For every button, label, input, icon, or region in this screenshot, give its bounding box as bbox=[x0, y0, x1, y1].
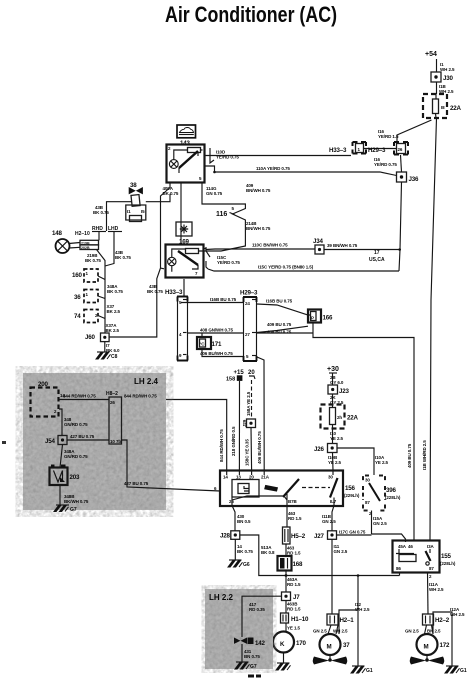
connector J36 bbox=[397, 172, 419, 183]
svg-text:202B: 202B bbox=[81, 246, 90, 250]
connector H2-2 bbox=[423, 614, 450, 625]
wire 156 pin26 down to J28 bbox=[232, 506, 235, 532]
wire H5-2 to 168 bbox=[285, 544, 287, 556]
node +15 bbox=[234, 370, 245, 376]
svg-text:13: 13 bbox=[236, 475, 241, 480]
svg-text:YE 2.5: YE 2.5 bbox=[375, 460, 389, 465]
svg-text:10 7b: 10 7b bbox=[110, 439, 121, 444]
svg-text:87: 87 bbox=[429, 566, 434, 571]
svg-text:(228Lh): (228Lh) bbox=[385, 495, 401, 500]
actuator 203 bbox=[50, 465, 80, 486]
connector J30 bbox=[431, 72, 453, 82]
svg-text:BK 2.5: BK 2.5 bbox=[106, 328, 120, 333]
svg-text:158C YE 0.35: 158C YE 0.35 bbox=[245, 439, 250, 466]
svg-text:(228Lh): (228Lh) bbox=[440, 561, 456, 566]
svg-text:I16B BU 0.75: I16B BU 0.75 bbox=[266, 299, 293, 304]
svg-text:GN 2.5: GN 2.5 bbox=[322, 519, 336, 524]
svg-text:YE/RD 0.75: YE/RD 0.75 bbox=[216, 155, 239, 160]
svg-text:GN/RD 0.75: GN/RD 0.75 bbox=[64, 454, 88, 459]
svg-text:BK 0.75: BK 0.75 bbox=[107, 289, 123, 294]
node 116 bbox=[216, 206, 235, 218]
wire J30 to fuse 22A bbox=[436, 82, 438, 94]
ground G7 (LH2.4) bbox=[54, 505, 77, 513]
svg-text:BN/WH 0.75: BN/WH 0.75 bbox=[246, 188, 271, 193]
svg-text:406 BU/WH 0.75: 406 BU/WH 0.75 bbox=[200, 351, 233, 356]
svg-text:158A YE 2.5: 158A YE 2.5 bbox=[246, 391, 251, 416]
svg-text:BK 0.8: BK 0.8 bbox=[261, 550, 275, 555]
wire relay 155 coil to ground net bbox=[399, 573, 401, 576]
ground C8 bbox=[96, 352, 118, 360]
svg-text:J23: J23 bbox=[339, 388, 349, 395]
svg-text:160: 160 bbox=[72, 272, 82, 279]
svg-text:427 BU 0.75: 427 BU 0.75 bbox=[70, 434, 95, 439]
svg-text:YE/RD 0.75: YE/RD 0.75 bbox=[374, 162, 397, 167]
svg-text:166: 166 bbox=[323, 315, 333, 322]
svg-text:°C: °C bbox=[200, 342, 206, 347]
junction dots bbox=[213, 171, 216, 174]
wire H29-3 pin24 to 166 bbox=[257, 304, 310, 315]
wire motor 170 to ground bbox=[283, 653, 285, 664]
connector H5-2 bbox=[283, 527, 306, 544]
wire H33-3 pin4 to H29-3 pin27 (408 GN/WH) bbox=[188, 332, 243, 334]
svg-text:9: 9 bbox=[179, 353, 182, 358]
svg-text:168: 168 bbox=[293, 561, 303, 568]
svg-text:WH 2.5: WH 2.5 bbox=[333, 629, 348, 634]
svg-text:22A: 22A bbox=[347, 415, 358, 422]
svg-text:BN 0.75: BN 0.75 bbox=[244, 654, 260, 659]
connector H2-1 bbox=[327, 614, 354, 625]
relay 169 bbox=[166, 245, 204, 278]
svg-text:GN 2.5: GN 2.5 bbox=[373, 521, 387, 526]
svg-text:BK 0.75: BK 0.75 bbox=[115, 255, 131, 260]
svg-text:YE/RD 1.5: YE/RD 1.5 bbox=[378, 134, 399, 139]
svg-text:J54: J54 bbox=[45, 438, 55, 445]
valve 38 bbox=[126, 182, 146, 222]
svg-text:I1B WH/RD 2.5: I1B WH/RD 2.5 bbox=[422, 440, 427, 470]
svg-text:J34: J34 bbox=[313, 238, 323, 245]
svg-text:H2–2: H2–2 bbox=[435, 617, 450, 624]
wire lamp to H2-10 bbox=[69, 243, 80, 249]
svg-text:87: 87 bbox=[365, 500, 370, 505]
wire H33-3 to H29-3 small bbox=[364, 148, 397, 150]
svg-text:BK 0.75: BK 0.75 bbox=[163, 191, 179, 196]
svg-text:5: 5 bbox=[246, 354, 249, 359]
svg-text:39 BN/WH 0.75: 39 BN/WH 0.75 bbox=[327, 243, 358, 248]
ground G7 (LH2.2) bbox=[235, 662, 257, 670]
svg-text:844 RD/WH 0.75: 844 RD/WH 0.75 bbox=[124, 394, 157, 399]
svg-text:37: 37 bbox=[343, 642, 350, 649]
relay 155 bbox=[393, 541, 456, 573]
svg-text:203: 203 bbox=[70, 474, 80, 481]
wire H33-3 to H29-3 (I16B BU) bbox=[181, 302, 243, 304]
svg-text:148: 148 bbox=[52, 230, 62, 237]
svg-text:YE/RD 0.75: YE/RD 0.75 bbox=[217, 260, 240, 265]
fuse 22A (top) bbox=[423, 94, 461, 118]
wire ground net down to G1 (I12 WH) bbox=[357, 576, 359, 667]
svg-text:BK 2.5: BK 2.5 bbox=[427, 629, 441, 634]
svg-text:1: 1 bbox=[358, 147, 361, 152]
svg-text:427 BU 0.75: 427 BU 0.75 bbox=[124, 481, 149, 486]
svg-text:I1: I1 bbox=[127, 209, 131, 214]
svg-text:4: 4 bbox=[179, 332, 182, 337]
svg-text:YE 2.5: YE 2.5 bbox=[328, 460, 342, 465]
svg-text:GN 2.5: GN 2.5 bbox=[313, 629, 327, 634]
svg-text:171: 171 bbox=[212, 341, 222, 348]
svg-text:Air Conditioner (AC): Air Conditioner (AC) bbox=[165, 2, 337, 27]
wire +54 to J30 bbox=[436, 59, 438, 72]
wire valve 38 to relay 143 (409A) bbox=[146, 194, 170, 202]
icon car (above relay 143) bbox=[177, 125, 196, 138]
resistor 168 bbox=[278, 556, 303, 571]
connector H33-3 (tall) bbox=[165, 289, 188, 361]
component 36 bbox=[74, 290, 105, 303]
svg-text:46: 46 bbox=[408, 544, 413, 549]
terminal 158 bbox=[226, 375, 242, 382]
wire J29 down to control head pin 20 bbox=[250, 428, 253, 471]
svg-text:BK 2.5: BK 2.5 bbox=[107, 309, 121, 314]
svg-text:218 GN/RD 0.5: 218 GN/RD 0.5 bbox=[231, 426, 236, 456]
svg-text:2: 2 bbox=[429, 574, 432, 579]
svg-text:GN 0.75: GN 0.75 bbox=[206, 191, 223, 196]
svg-text:844 RD/WH 0.75: 844 RD/WH 0.75 bbox=[219, 429, 224, 462]
svg-text:LH 2.2: LH 2.2 bbox=[209, 593, 234, 602]
fan blades 37 bbox=[313, 655, 348, 665]
svg-text:M: M bbox=[327, 644, 332, 651]
ground (motor 170) bbox=[276, 663, 291, 670]
wire H2-2 to motor 172 bbox=[425, 625, 427, 634]
connector J54 bbox=[45, 436, 67, 446]
svg-text:155: 155 bbox=[441, 553, 451, 560]
connector H1-10 bbox=[281, 613, 309, 623]
svg-text:26: 26 bbox=[110, 400, 115, 405]
connector H2-10 bbox=[75, 231, 99, 250]
svg-text:H29–3: H29–3 bbox=[368, 147, 386, 154]
svg-text:BN 0.5: BN 0.5 bbox=[237, 519, 251, 524]
thermostat 171 bbox=[197, 333, 222, 349]
connector H29-3 (small) bbox=[368, 142, 408, 155]
component 74 bbox=[74, 310, 105, 323]
wire J26 down to 156 pin 30 bbox=[332, 453, 335, 471]
svg-text:30: 30 bbox=[328, 475, 333, 480]
component 160 bbox=[72, 269, 105, 282]
svg-text:US,CA: US,CA bbox=[369, 257, 385, 263]
svg-text:I15C YE/RD 0.75 (BN80 1.5): I15C YE/RD 0.75 (BN80 1.5) bbox=[258, 265, 314, 270]
svg-text:36: 36 bbox=[74, 294, 81, 301]
svg-text:H33–3: H33–3 bbox=[165, 289, 183, 296]
svg-text:BK 0.75: BK 0.75 bbox=[147, 289, 163, 294]
svg-text:6: 6 bbox=[214, 486, 217, 491]
lamp 148 bbox=[52, 230, 70, 253]
svg-text:H29–3: H29–3 bbox=[240, 290, 258, 297]
connector J27 bbox=[314, 531, 337, 540]
svg-text:WH 2.5: WH 2.5 bbox=[429, 587, 444, 592]
svg-text:I17C GN 0.75: I17C GN 0.75 bbox=[339, 530, 366, 535]
wire 156 pin B7B down to H5-2 bbox=[286, 506, 288, 528]
svg-text:J60: J60 bbox=[85, 334, 95, 341]
LH 2.4 module (grey) bbox=[23, 373, 166, 510]
svg-text:GY 6.0: GY 6.0 bbox=[330, 380, 344, 385]
svg-text:844 RD/WH 0.75: 844 RD/WH 0.75 bbox=[63, 394, 96, 399]
LH 2.2 module (grey) bbox=[205, 589, 273, 669]
svg-text:110C BN/WH 0.75: 110C BN/WH 0.75 bbox=[252, 243, 288, 248]
svg-text:396: 396 bbox=[386, 487, 396, 494]
ground G1 (motor 172) bbox=[445, 666, 467, 674]
svg-text:RD 1.5: RD 1.5 bbox=[287, 582, 301, 587]
svg-text:24: 24 bbox=[245, 301, 250, 306]
node LHD bbox=[108, 226, 122, 232]
svg-text:BK 0.75: BK 0.75 bbox=[93, 210, 109, 215]
svg-text:GN 2.5: GN 2.5 bbox=[334, 549, 348, 554]
svg-text:M: M bbox=[424, 644, 429, 651]
fan motor 37 bbox=[320, 634, 351, 655]
wire fuse to H29-3 small (diagonal) bbox=[397, 120, 432, 142]
svg-text:+30: +30 bbox=[327, 366, 339, 373]
svg-text:74: 74 bbox=[74, 313, 81, 320]
node RHD bbox=[92, 226, 106, 232]
wire 169/valve line down to H29-3 pin 24 (I16B BU) bbox=[183, 279, 185, 297]
svg-text:H2–10: H2–10 bbox=[75, 231, 90, 237]
wire H2-1 to motor 37 bbox=[328, 625, 331, 634]
svg-text:J27: J27 bbox=[314, 533, 324, 540]
wire J23 to fuse 22A bbox=[332, 394, 334, 404]
svg-text:H1–10: H1–10 bbox=[291, 616, 309, 623]
svg-text:142: 142 bbox=[255, 640, 265, 647]
wire 156 pin IL7 down to J27 bbox=[332, 506, 334, 532]
wire J60 to ground bbox=[104, 342, 106, 352]
wire J27 down to H2-1 bbox=[331, 539, 333, 614]
svg-text:WH 2.5: WH 2.5 bbox=[450, 612, 465, 617]
node +30 bbox=[327, 366, 339, 373]
svg-text:116: 116 bbox=[216, 211, 227, 218]
icon snowflake (above relay 169) bbox=[176, 222, 192, 236]
connector J60 bbox=[85, 333, 109, 342]
wire 203 down to ground G7 bbox=[59, 485, 61, 505]
svg-text:G6: G6 bbox=[243, 562, 250, 568]
svg-text:5: 5 bbox=[232, 206, 235, 211]
wire 158 down to control head pin 13 bbox=[238, 381, 240, 470]
svg-text:BK 0.75: BK 0.75 bbox=[237, 549, 253, 554]
wire motor 37 second terminal to ground line bbox=[336, 610, 358, 634]
svg-text:(229Lh): (229Lh) bbox=[344, 493, 360, 498]
svg-text:LH 2.4: LH 2.4 bbox=[134, 377, 159, 386]
wire 171 to H29-3 pin5 (406 BU/WH) bbox=[202, 349, 243, 357]
blower motor 170 bbox=[273, 632, 306, 653]
svg-text:YE 1.5: YE 1.5 bbox=[287, 626, 301, 631]
svg-text:30: 30 bbox=[365, 478, 370, 483]
wire J36 down to junctions bbox=[399, 182, 402, 271]
svg-text:27: 27 bbox=[245, 332, 250, 337]
svg-text:409 BU 0.75: 409 BU 0.75 bbox=[407, 443, 412, 468]
wire LHD down bbox=[105, 232, 114, 267]
page footer marks bbox=[248, 675, 261, 678]
svg-text:IL7: IL7 bbox=[330, 499, 337, 504]
svg-text:GN 2.5: GN 2.5 bbox=[405, 629, 419, 634]
svg-text:17: 17 bbox=[374, 250, 380, 256]
svg-text:J26: J26 bbox=[314, 446, 324, 453]
wire J7 to H1-10 bbox=[285, 601, 287, 614]
wire J27 right to 396/155 (I17C GN) bbox=[337, 534, 406, 542]
wire 200 pin14 to H8-2 (844) bbox=[59, 399, 109, 401]
svg-text:H8–2: H8–2 bbox=[106, 391, 118, 397]
wire H2-10 down to box 160 bbox=[97, 250, 106, 334]
wire H8-2 out (427 BU) to control head bbox=[122, 440, 221, 491]
svg-text:22A: 22A bbox=[450, 105, 461, 112]
svg-text:G7: G7 bbox=[250, 664, 257, 670]
svg-text:+15: +15 bbox=[234, 370, 245, 376]
svg-text:+54: +54 bbox=[425, 51, 437, 58]
svg-text:RD 1.5: RD 1.5 bbox=[288, 516, 302, 521]
connector H29-3 (tall) bbox=[240, 290, 258, 362]
wire RHD down to H2-10 bbox=[98, 232, 100, 241]
fan blades 172 bbox=[410, 655, 445, 665]
svg-text:170: 170 bbox=[296, 640, 306, 647]
svg-text:J28: J28 bbox=[220, 533, 230, 540]
wire J54 to H8-2 (427 BU) bbox=[67, 439, 109, 441]
wire relay 155 switch down to H2-2 bbox=[427, 573, 430, 615]
svg-text:172: 172 bbox=[440, 642, 450, 649]
svg-text:I5: I5 bbox=[141, 209, 145, 214]
svg-text:J30: J30 bbox=[443, 75, 453, 82]
svg-text:86: 86 bbox=[396, 566, 401, 571]
ground G1 (motor 37) bbox=[351, 666, 373, 674]
svg-text:G1: G1 bbox=[366, 668, 373, 674]
svg-text:5: 5 bbox=[199, 176, 202, 181]
wire 143 bottom-left down (409A BK) bbox=[109, 183, 170, 338]
svg-text:1: 1 bbox=[86, 292, 89, 297]
relay 143 bbox=[167, 145, 205, 183]
svg-text:2h: 2h bbox=[337, 415, 342, 420]
wire fuse to J26 bbox=[332, 429, 334, 445]
wire 20 dashed down to J29 bbox=[251, 380, 253, 418]
connector J23 bbox=[328, 385, 349, 395]
svg-text:110A YE/RD 0.75: 110A YE/RD 0.75 bbox=[256, 166, 290, 171]
svg-text:2: 2 bbox=[168, 146, 171, 151]
connector J34 bbox=[313, 238, 324, 254]
svg-text:21A: 21A bbox=[261, 475, 270, 480]
svg-text:C8: C8 bbox=[111, 354, 118, 360]
control panel 156 bbox=[214, 471, 360, 507]
svg-text:H2–1: H2–1 bbox=[340, 617, 355, 624]
wire 143 output long (110A) to J36 bbox=[205, 166, 397, 176]
svg-text:20: 20 bbox=[248, 370, 255, 376]
svg-text:38: 38 bbox=[130, 182, 137, 189]
wire fuse 22A down to relay 155 bbox=[430, 118, 437, 540]
wire +30 to J23 bbox=[332, 373, 334, 385]
sensor 142 bbox=[234, 638, 265, 648]
wire 844 from LH2.4 down to pin 14 bbox=[166, 400, 227, 471]
control unit 200 (dashed) bbox=[31, 381, 66, 417]
wire 143 bottom pin to 169 top bbox=[180, 183, 182, 245]
wire 406 BU/WH down to pin 21A bbox=[257, 357, 264, 470]
svg-text:408 BU 0.75: 408 BU 0.75 bbox=[267, 330, 292, 335]
wire H29-3 small down to J36 bbox=[401, 155, 402, 172]
connector J29 bbox=[242, 419, 256, 428]
svg-text:408 GN/WH 0.75: 408 GN/WH 0.75 bbox=[200, 328, 233, 333]
wire 169 upper output (110C BN/WH) to J34 bbox=[204, 249, 316, 250]
svg-text:BN/WH 0.75: BN/WH 0.75 bbox=[246, 226, 271, 231]
svg-text:WH 2.5: WH 2.5 bbox=[440, 67, 455, 72]
svg-text:I3A: I3A bbox=[427, 544, 435, 549]
connector H8-2 bbox=[106, 391, 122, 444]
wire 142 to ground G7 bbox=[241, 644, 243, 662]
connector J28 bbox=[220, 531, 240, 540]
svg-text:GN/RD 0.75: GN/RD 0.75 bbox=[64, 422, 88, 427]
wire 200 pin2 down to J54 bbox=[59, 409, 62, 436]
switch arm right of 169 bbox=[206, 247, 210, 269]
svg-text:P: P bbox=[311, 316, 314, 321]
wire J7 left into LH2.2 bbox=[242, 596, 282, 637]
wire H29-3 pin27 to 166 lower / to relay 155 line bbox=[257, 323, 414, 541]
wire valve 38 left down (43B BK) bbox=[107, 202, 132, 231]
connector half-arrow on I10D wire bbox=[210, 148, 214, 163]
wire 396 down to J27 line bbox=[371, 511, 373, 535]
svg-text:219B: 219B bbox=[81, 241, 90, 245]
ground G6 bbox=[228, 560, 250, 568]
svg-text:BK 0.75: BK 0.75 bbox=[85, 258, 101, 263]
connector H33-3 (small) bbox=[329, 142, 366, 154]
svg-text:1: 1 bbox=[86, 271, 89, 276]
fuse 22A (dashed, +30) bbox=[321, 405, 359, 429]
node +54 bbox=[425, 51, 437, 58]
svg-text:158: 158 bbox=[226, 377, 235, 383]
wire J54 down to 203 bbox=[60, 445, 63, 468]
svg-text:RD 1.5: RD 1.5 bbox=[287, 551, 301, 556]
svg-text:I16B BU 0.75: I16B BU 0.75 bbox=[210, 297, 237, 302]
svg-text:H33–3: H33–3 bbox=[329, 147, 347, 154]
connector J26 bbox=[314, 444, 337, 454]
svg-text:406 BU/WH 0.75: 406 BU/WH 0.75 bbox=[257, 431, 262, 464]
wire J26 branch to relay 396 bbox=[337, 448, 374, 475]
wire branch from 110A down to node 116 bbox=[202, 183, 245, 252]
svg-text:B7B: B7B bbox=[288, 499, 298, 504]
svg-text:H5–2: H5–2 bbox=[291, 533, 306, 540]
svg-text:156: 156 bbox=[345, 485, 355, 492]
svg-text:YE 2.5: YE 2.5 bbox=[330, 436, 344, 441]
wire J28 down to ground bbox=[234, 539, 236, 560]
wire 169 lower output (I15C) to J36 line bbox=[208, 269, 399, 271]
node 20 bbox=[248, 370, 255, 379]
svg-text:RD 0.35: RD 0.35 bbox=[249, 607, 265, 612]
svg-text:26: 26 bbox=[398, 147, 403, 152]
relay 396 (dashed) bbox=[363, 476, 401, 517]
svg-text:J7: J7 bbox=[293, 594, 300, 601]
svg-text:G1: G1 bbox=[460, 668, 467, 674]
svg-text:45A: 45A bbox=[398, 544, 407, 549]
svg-text:7: 7 bbox=[195, 271, 198, 276]
svg-text:K: K bbox=[280, 641, 285, 648]
wire motor 172 second terminal to ground bbox=[432, 612, 453, 666]
wire 143 pin right (I10D) bbox=[205, 155, 352, 157]
svg-text:RD 1.5: RD 1.5 bbox=[287, 607, 301, 612]
component 166 bbox=[308, 310, 333, 323]
svg-text:20: 20 bbox=[249, 475, 254, 480]
wire J34 to J36 line bbox=[324, 249, 400, 251]
wire J28 branch (513A BK) to 463 net bbox=[240, 535, 400, 576]
connector J7 bbox=[282, 592, 301, 601]
svg-text:BK/WH 0.75: BK/WH 0.75 bbox=[64, 499, 89, 504]
stray mark (scan artifact) bbox=[2, 441, 6, 444]
svg-text:J36: J36 bbox=[409, 176, 419, 183]
wire H1-10 to motor 170 bbox=[285, 623, 287, 631]
svg-text:14: 14 bbox=[223, 475, 228, 480]
fan motor 172 bbox=[417, 634, 450, 655]
svg-text:I8: I8 bbox=[441, 105, 445, 110]
svg-text:G7: G7 bbox=[70, 507, 77, 513]
svg-text:409 BU 0.75: 409 BU 0.75 bbox=[267, 322, 292, 327]
wire 168 to J7 bbox=[285, 571, 287, 593]
